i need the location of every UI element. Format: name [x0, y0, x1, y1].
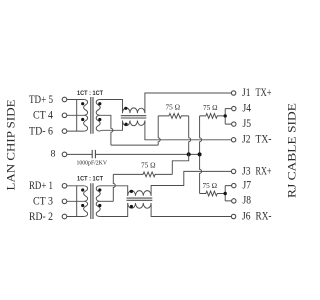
T1 primary phase dot upper [81, 102, 84, 105]
transformer T2 secondary winding upper [96, 186, 100, 202]
choke L1 bottom phase dot [125, 123, 128, 126]
wire T2 secondary top to choke L2 [100, 186, 128, 196]
svg-text:J4: J4 [243, 101, 252, 114]
choke L1 top winding [122, 108, 144, 113]
svg-text:LAN CHIP SIDE: LAN CHIP SIDE [5, 100, 17, 191]
svg-text:CT 3: CT 3 [33, 194, 53, 208]
wire R4 to J7 J8 stubs [225, 186, 231, 201]
capacitor C1 value label [77, 159, 108, 166]
resistor R4 75ohm label [203, 182, 218, 190]
resistor R3 75ohm [113, 172, 172, 177]
pin 5 label TD+ 5 [29, 92, 53, 106]
pin 6 label TD- 6 [29, 123, 53, 137]
T1 secondary phase dot upper [98, 102, 101, 105]
pin J6 terminal [231, 214, 235, 218]
svg-text:75 Ω: 75 Ω [166, 104, 181, 112]
pin 3 label CT 3 [33, 194, 53, 208]
pin J5 terminal [232, 122, 236, 126]
svg-text:1CT : 1CT: 1CT : 1CT [77, 176, 103, 183]
transformer T1 primary winding upper [77, 100, 88, 116]
wire R3 left down to T2 CT (hop over T2 top wire) [113, 174, 115, 201]
pin J1 label TX+ [242, 86, 272, 99]
resistor R2 75ohm label [203, 104, 218, 112]
choke L2 top winding [128, 191, 151, 196]
transformer T2 primary winding upper [77, 186, 88, 202]
pin 8 label [51, 150, 56, 160]
svg-text:8: 8 [51, 150, 56, 160]
wire T1 secondary CT down to rail (hop over bottom wire) [100, 115, 113, 145]
resistor R3 75ohm label [141, 162, 156, 170]
wire pin1 to T2 [67, 185, 84, 187]
wire R2 to J4 J5 stubs [225, 109, 231, 125]
resistor R1 75ohm label [166, 104, 181, 112]
svg-text:TD+ 5: TD+ 5 [29, 92, 53, 106]
choke L2 top phase dot [130, 190, 133, 193]
svg-text:75 Ω: 75 Ω [141, 162, 156, 170]
pin J3 label RX+ [242, 164, 272, 177]
svg-text:1000pF/2KV: 1000pF/2KV [77, 159, 108, 166]
transformer T1 primary winding lower [77, 115, 88, 131]
T2 secondary phase dot upper [98, 188, 101, 191]
transformer T2 secondary winding lower [96, 201, 100, 216]
svg-text:75 Ω: 75 Ω [203, 104, 218, 112]
svg-text:RX+: RX+ [256, 164, 272, 177]
svg-text:RD- 2: RD- 2 [29, 209, 53, 223]
wire choke L1 top out to J1 [145, 93, 231, 113]
choke L2 bottom phase dot [130, 205, 133, 208]
svg-text:1CT : 1CT: 1CT : 1CT [77, 90, 103, 97]
pin J2 label TX- [242, 133, 272, 146]
svg-text:RJ CABLE SIDE: RJ CABLE SIDE [286, 103, 298, 198]
transformer T2 ratio label 1CT : 1CT [77, 176, 103, 183]
pin J7 label [243, 178, 252, 191]
pin J4 label [243, 101, 252, 114]
svg-text:RX-: RX- [256, 209, 272, 222]
svg-text:J3: J3 [242, 164, 251, 177]
svg-text:J1: J1 [242, 86, 251, 99]
pin 6 terminal [62, 129, 67, 134]
transformer T2 primary winding lower [77, 201, 88, 216]
svg-text:TX+: TX+ [256, 86, 272, 99]
wire node A staircase to R3 [172, 154, 188, 174]
pin J2 terminal [231, 138, 235, 142]
transformer T1 secondary winding upper [96, 100, 100, 116]
wire R1 right vertical to node A (hop over J2 wire) [189, 116, 191, 154]
wire choke L1 bottom out to J2 [145, 121, 231, 140]
wire pin5 to T1 [67, 99, 84, 101]
svg-text:J6: J6 [242, 209, 251, 222]
junction node B [198, 152, 202, 156]
pin J3 terminal [231, 169, 235, 173]
T1 primary phase dot lower [81, 118, 84, 121]
wire pin8 to capacitor C1 [67, 153, 92, 155]
wire choke L2 top out to J3 [151, 171, 231, 195]
choke L2 core [127, 198, 153, 200]
pin J4 terminal [232, 106, 236, 110]
wire pin3 to T2 [67, 200, 84, 202]
pin 3 terminal [62, 199, 67, 204]
pin 1 label RD+ 1 [29, 178, 53, 192]
pin J8 label [243, 194, 252, 207]
resistor R2 75ohm [200, 114, 226, 119]
pin J1 terminal [231, 91, 235, 95]
choke L1 core [121, 116, 147, 118]
capacitor C1 1000pF/2KV [92, 150, 95, 158]
choke L1 bottom winding [122, 121, 144, 126]
wire R2 left vertical to node B (hops over J2 and J3 wires) [200, 116, 202, 194]
pin 4 label CT 4 [33, 108, 53, 122]
junction J4/J5 node [224, 114, 227, 117]
transformer T1 ratio label 1CT : 1CT [77, 90, 103, 97]
svg-text:TD- 6: TD- 6 [29, 123, 53, 137]
T2 secondary phase dot lower [98, 204, 101, 207]
transformer T1 core [91, 97, 93, 134]
wire pin6 to T1 [67, 130, 84, 132]
pin 5 terminal [62, 97, 67, 102]
pin 8 terminal [62, 152, 67, 157]
svg-text:CT 4: CT 4 [33, 108, 53, 122]
pin J7 terminal [232, 183, 236, 187]
wire R1 left vertical (hop over J2 wire) [158, 116, 160, 145]
pin 2 label RD- 2 [29, 209, 53, 223]
resistor R4 75ohm [200, 191, 226, 196]
pin J6 label RX- [242, 209, 272, 222]
wire T2 secondary CT to R3 vertical [100, 200, 114, 202]
wire T2 secondary bottom to choke L2 bottom left [100, 203, 128, 217]
svg-text:J5: J5 [243, 117, 252, 130]
svg-text:TX-: TX- [256, 133, 272, 146]
svg-text:J7: J7 [243, 178, 252, 191]
label LAN CHIP SIDE [5, 100, 17, 191]
T2 primary phase dot lower [81, 204, 84, 207]
transformer T2 core [91, 183, 93, 219]
svg-text:75 Ω: 75 Ω [203, 182, 218, 190]
choke L1 top phase dot [124, 107, 127, 110]
wire pin2 to T2 [67, 216, 84, 218]
wire C1 to node A and node B rail [95, 153, 199, 155]
wire pin4 to T1 [67, 114, 84, 116]
junction node A [187, 152, 191, 156]
pin J8 terminal [232, 199, 236, 203]
label RJ CABLE SIDE [286, 103, 298, 198]
svg-text:RD+ 1: RD+ 1 [29, 178, 53, 192]
choke L2 bottom winding [128, 203, 151, 208]
wire T1 secondary top to choke L1 [100, 100, 123, 114]
svg-text:J8: J8 [243, 194, 252, 207]
wire choke L2 bottom out to J6 [151, 203, 231, 217]
svg-text:J2: J2 [242, 133, 251, 146]
T1 secondary phase dot lower [98, 118, 101, 121]
resistor R1 75ohm [158, 114, 189, 119]
pin 2 terminal [62, 214, 67, 219]
junction J7/J8 node [224, 192, 227, 195]
T2 primary phase dot upper [81, 188, 84, 191]
pin 1 terminal [62, 184, 67, 189]
pin J5 label [243, 117, 252, 130]
pin 4 terminal [62, 113, 67, 118]
wire CT rail to R1 left [111, 144, 158, 146]
transformer T1 secondary winding lower [96, 115, 100, 131]
wire T1 secondary bottom to choke L1 bottom left [100, 121, 123, 132]
